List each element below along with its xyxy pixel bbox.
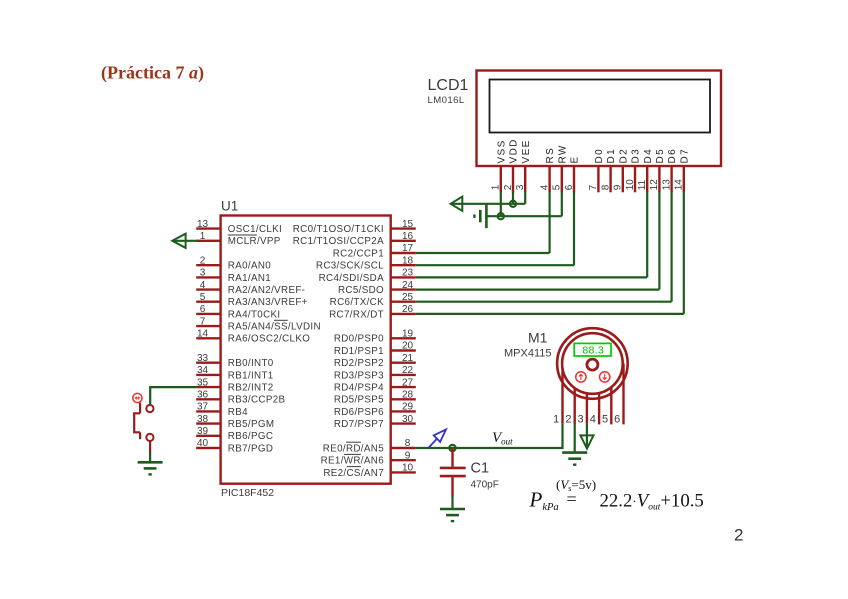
wire RC4 to LCD D4 — [416, 276, 647, 278]
U1 pin 10 RE2/CS/AN7 — [323, 463, 415, 479]
svg-text:12: 12 — [649, 179, 660, 191]
svg-text:5: 5 — [200, 292, 206, 303]
U1 pin 7 RA5/AN4/SS/LVDIN — [196, 316, 321, 332]
power terminal arrow down (M1 pin 3, Vs) — [580, 424, 593, 449]
svg-text:RD2/PSP2: RD2/PSP2 — [334, 358, 384, 369]
U1 pin 14 RA6/OSC2/CLKO — [196, 329, 310, 345]
U1 pin 40 RB7/PGD — [196, 438, 273, 454]
wire from LCD pin 4 (RS) down — [548, 191, 550, 253]
svg-text:RD3/PSP3: RD3/PSP3 — [334, 370, 384, 381]
U1 pin 8 RE0/RD/AN5 — [323, 438, 416, 454]
U1 pin 24 RC5/SDO — [338, 280, 416, 296]
wire RC3 to LCD E — [416, 264, 574, 266]
svg-text:6: 6 — [200, 304, 206, 315]
svg-text:34: 34 — [197, 365, 209, 376]
svg-text:23: 23 — [402, 268, 414, 279]
svg-text:RD7/PSP7: RD7/PSP7 — [334, 419, 384, 430]
ground symbol (LCD, rotated left) — [474, 204, 486, 228]
svg-text:D3: D3 — [631, 148, 642, 164]
svg-text:11: 11 — [637, 179, 648, 190]
U1 pin 38 RB5/PGM — [196, 414, 274, 430]
svg-text:9: 9 — [405, 450, 411, 461]
junction dot at C1 / Vout — [449, 445, 455, 451]
svg-text:RB7/PGD: RB7/PGD — [228, 443, 273, 454]
svg-text:RC2/CCP1: RC2/CCP1 — [333, 248, 384, 259]
svg-text:D1: D1 — [606, 148, 617, 164]
U1 pin 21 RD2/PSP2 — [334, 353, 416, 369]
U1 pin 6 RA4/T0CKI — [196, 304, 280, 320]
svg-text:18: 18 — [402, 255, 414, 266]
svg-text:2: 2 — [565, 413, 571, 425]
svg-text:8: 8 — [405, 438, 411, 449]
LCD display LCD1 body — [477, 71, 722, 167]
svg-text:13: 13 — [661, 179, 672, 191]
sensor decrement actuator (down arrow) — [600, 372, 610, 382]
svg-text:E: E — [570, 155, 581, 163]
U1 pin 20 RD1/PSP1 — [334, 341, 416, 357]
svg-text:24: 24 — [402, 280, 414, 291]
svg-text:VDD: VDD — [509, 138, 520, 163]
svg-text:15: 15 — [402, 219, 414, 230]
svg-text:RD4/PSP4: RD4/PSP4 — [334, 383, 384, 394]
svg-text:4: 4 — [539, 184, 550, 190]
U1 pin 19 RD0/PSP0 — [334, 329, 416, 345]
svg-text:RS: RS — [545, 147, 556, 164]
svg-text:RB4: RB4 — [228, 407, 248, 418]
svg-text:RB3/CCP2B: RB3/CCP2B — [228, 395, 286, 406]
U1 pin 26 RC7/RX/DT — [329, 304, 416, 320]
wire from LCD pin 5 (RW) down — [561, 191, 563, 216]
sensor M1 MPX4115 outer ring — [557, 328, 628, 399]
junction dot at LCD pin 2 / supply rail — [510, 201, 516, 207]
svg-text:27: 27 — [402, 377, 414, 388]
svg-text:2: 2 — [503, 184, 514, 190]
svg-text:D6: D6 — [667, 148, 678, 164]
svg-text:30: 30 — [402, 414, 414, 425]
svg-text:39: 39 — [197, 426, 209, 437]
push button switch (to RB2/INT2) — [133, 393, 154, 452]
LCD1 pin 2 (VDD) stub and pin number — [503, 138, 520, 192]
U1 pin 1 MCLR/VPP — [196, 231, 281, 247]
U1 pin 36 RB3/CCP2B — [196, 390, 285, 406]
wire from LCD pin 11 (D4) down — [646, 191, 648, 277]
svg-text:RC6/TX/CK: RC6/TX/CK — [330, 297, 384, 308]
svg-text:RC4/SDI/SDA: RC4/SDI/SDA — [319, 273, 384, 284]
U1 pin 35 RB2/INT2 — [196, 377, 273, 393]
U1 pin 39 RB6/PGC — [196, 426, 273, 442]
svg-text:OSC1/CLKI: OSC1/CLKI — [228, 224, 282, 235]
svg-text:29: 29 — [402, 402, 414, 413]
svg-text:PIC18F452: PIC18F452 — [221, 487, 274, 499]
svg-text:28: 28 — [402, 390, 414, 401]
wire from LCD pin 1 (VSS) down — [500, 191, 502, 216]
svg-text:(Práctica 7 a): (Práctica 7 a) — [101, 63, 204, 84]
LCD1 pin 3 (VEE) stub and pin number — [515, 139, 532, 192]
wire C1 to ground — [451, 496, 453, 509]
svg-text:RC3/SCK/SCL: RC3/SCK/SCL — [316, 261, 384, 272]
wire M1 pin 2 to ground — [574, 423, 576, 453]
wire from LCD pin 3 (VEE) down — [524, 191, 526, 204]
svg-text:4: 4 — [200, 280, 206, 291]
svg-text:=: = — [567, 489, 577, 509]
LCD inner screen area — [490, 80, 711, 133]
formula P_kPa = 22.2 V_out + 10.5 — [529, 488, 704, 514]
svg-text:20: 20 — [402, 341, 414, 352]
U1 pin 13 OSC1/CLKI — [196, 219, 282, 235]
svg-text:38: 38 — [197, 414, 209, 425]
wire ground rail (VSS, RW) — [487, 215, 562, 217]
svg-text:RB2/INT2: RB2/INT2 — [228, 383, 274, 394]
svg-text:1: 1 — [491, 184, 502, 190]
sensor center port circle — [587, 359, 598, 370]
M1 sensor pins 1-6 — [563, 364, 624, 425]
wire Vout (RE0/AN5 to MPX4115 pin 1) — [416, 424, 563, 448]
svg-text:RC0/T1OSO/T1CKI: RC0/T1OSO/T1CKI — [293, 224, 384, 235]
ground symbol (C1) — [440, 509, 465, 521]
U1 pin 17 RC2/CCP1 — [333, 243, 416, 259]
ground symbol (push button) — [138, 462, 163, 474]
svg-text:RD5/PSP5: RD5/PSP5 — [334, 395, 384, 406]
U1 pin 22 RD3/PSP3 — [334, 365, 416, 381]
svg-text:10: 10 — [625, 179, 636, 191]
svg-text:RC1/T1OSI/CCP2A: RC1/T1OSI/CCP2A — [293, 236, 384, 247]
U1 pin 28 RD5/PSP5 — [334, 390, 416, 406]
wire RC2/CCP1 to LCD RS — [416, 252, 550, 254]
LCD1 pin 11 (D4) stub and pin number — [637, 148, 654, 192]
wire RC7 to LCD D7 — [416, 313, 684, 315]
LCD1 pin 5 (RW) stub and pin number — [552, 144, 569, 192]
LCD1 pin 6 (E) stub and pin number — [564, 155, 581, 192]
svg-text:RB5/PGM: RB5/PGM — [228, 419, 275, 430]
svg-text:RA0/AN0: RA0/AN0 — [228, 261, 271, 272]
ground symbol (M1 pin 2) — [562, 453, 587, 465]
LCD1 pin 7 (D0) stub and pin number — [588, 148, 605, 192]
U1 pin 9 RE1/WR/AN6 — [321, 450, 416, 466]
svg-text:D4: D4 — [643, 148, 654, 164]
svg-text:RD0/PSP0: RD0/PSP0 — [334, 334, 384, 345]
U1 pin 33 RB0/INT0 — [196, 353, 274, 369]
wire RC5 to LCD D5 — [416, 289, 660, 291]
wire from LCD pin 14 (D7) down — [683, 191, 685, 314]
svg-text:RA1/AN1: RA1/AN1 — [228, 273, 271, 284]
svg-text:3: 3 — [515, 184, 526, 190]
U1 pin 3 RA1/AN1 — [196, 268, 271, 284]
svg-text:MCLR/VPP: MCLR/VPP — [228, 236, 281, 247]
U1 pin 15 RC0/T1OSO/T1CKI — [293, 219, 416, 235]
svg-text:D5: D5 — [655, 148, 666, 164]
svg-text:13: 13 — [197, 219, 209, 230]
svg-text:7: 7 — [200, 316, 206, 327]
svg-text:14: 14 — [674, 179, 685, 191]
U1 pin 5 RA3/AN3/VREF+ — [196, 292, 308, 308]
svg-text:RA4/T0CKI: RA4/T0CKI — [228, 309, 281, 320]
wire from LCD pin 2 (VDD) down — [512, 191, 514, 204]
svg-text:14: 14 — [197, 329, 209, 340]
LCD1 pin 9 (D2) stub and pin number — [613, 148, 630, 192]
U1 pin 37 RB4 — [196, 402, 248, 418]
sensor display window 88.3 — [574, 343, 611, 356]
svg-text:33: 33 — [197, 353, 209, 364]
svg-text:6: 6 — [564, 184, 575, 190]
LCD1 pin 13 (D6) stub and pin number — [661, 148, 678, 192]
svg-text:RB6/PGC: RB6/PGC — [228, 431, 273, 442]
svg-text:1: 1 — [200, 231, 206, 242]
svg-text:RB1/INT1: RB1/INT1 — [228, 370, 274, 381]
svg-text:D2: D2 — [618, 148, 629, 164]
svg-text:RA2/AN2/VREF-: RA2/AN2/VREF- — [228, 285, 306, 296]
svg-text:7: 7 — [588, 184, 599, 190]
input terminal arrow at MCLR (pin 1) — [172, 234, 197, 248]
svg-text:1: 1 — [553, 413, 559, 425]
svg-text:RA3/AN3/VREF+: RA3/AN3/VREF+ — [228, 297, 308, 308]
svg-text:RE1/WR/AN6: RE1/WR/AN6 — [321, 456, 385, 467]
U1 pin 34 RB1/INT1 — [196, 365, 273, 381]
svg-text:10: 10 — [402, 463, 414, 474]
svg-text:LCD1: LCD1 — [428, 77, 469, 94]
LCD1 pin 12 (D5) stub and pin number — [649, 148, 666, 192]
svg-text:VEE: VEE — [521, 139, 532, 163]
svg-text:35: 35 — [197, 377, 209, 388]
wire from LCD pin 13 (D6) down — [670, 191, 672, 302]
U1 pin 25 RC6/TX/CK — [330, 292, 416, 308]
svg-text:88.3: 88.3 — [582, 345, 604, 357]
U1 pin 2 RA0/AN0 — [196, 255, 271, 271]
LCD1 pin 4 (RS) stub and pin number — [539, 147, 556, 193]
svg-text:RD1/PSP1: RD1/PSP1 — [334, 346, 384, 357]
svg-text:RB0/INT0: RB0/INT0 — [228, 358, 274, 369]
junction dot at LCD pin 1 / ground rail — [498, 213, 504, 219]
U1 pin 29 RD6/PSP6 — [334, 402, 416, 418]
svg-text:2: 2 — [200, 255, 206, 266]
svg-text:RC7/RX/DT: RC7/RX/DT — [329, 309, 384, 320]
svg-text:RC5/SDO: RC5/SDO — [338, 285, 384, 296]
svg-text:RA5/AN4/SS/LVDIN: RA5/AN4/SS/LVDIN — [228, 322, 321, 333]
U1 pin 4 RA2/AN2/VREF- — [196, 280, 305, 296]
svg-text:RD6/PSP6: RD6/PSP6 — [334, 407, 384, 418]
svg-text:4: 4 — [590, 413, 596, 425]
U1 pin 16 RC1/T1OSI/CCP2A — [293, 231, 416, 247]
sensor M1 inner circle — [562, 333, 623, 394]
svg-text:37: 37 — [197, 402, 209, 413]
capacitor C1 — [440, 448, 466, 496]
LCD1 pin 14 (D7) stub and pin number — [674, 148, 691, 192]
wire from LCD pin 6 (E) down — [573, 191, 575, 265]
power terminal arrow (LCD VDD/VEE net) — [451, 197, 526, 211]
svg-text:3: 3 — [200, 268, 206, 279]
svg-text:U1: U1 — [221, 199, 238, 214]
svg-text:5: 5 — [602, 413, 608, 425]
microcontroller U1 PIC18F452 body — [221, 216, 391, 484]
U1 pin 18 RC3/SCK/SCL — [316, 255, 416, 271]
svg-text:22: 22 — [402, 365, 414, 376]
svg-text:25: 25 — [402, 292, 414, 303]
svg-text:9: 9 — [613, 184, 624, 190]
svg-text:D0: D0 — [594, 148, 605, 164]
wire RC6 to LCD D6 — [416, 301, 672, 303]
svg-text:21: 21 — [402, 353, 414, 364]
svg-text:LM016L: LM016L — [428, 95, 465, 106]
svg-text:RE0/RD/AN5: RE0/RD/AN5 — [323, 443, 384, 454]
svg-text:17: 17 — [402, 243, 414, 254]
M1 pin numbers 1-6 — [553, 413, 620, 425]
svg-text:3: 3 — [578, 413, 584, 425]
U1 pin 27 RD4/PSP4 — [334, 377, 416, 393]
svg-text:M1: M1 — [528, 330, 548, 346]
svg-text:36: 36 — [197, 390, 209, 401]
svg-text:26: 26 — [402, 304, 414, 315]
LCD1 pin 1 (VSS) stub and pin number — [491, 139, 508, 192]
wire from LCD pin 12 (D5) down — [658, 191, 660, 289]
LCD1 pin 10 (D3) stub and pin number — [625, 148, 642, 192]
svg-text:VSS: VSS — [496, 139, 507, 163]
svg-text:D7: D7 — [679, 148, 690, 164]
svg-text:2: 2 — [734, 526, 743, 545]
voltage probe (blue arrow) on Vout — [429, 429, 446, 447]
svg-text:5: 5 — [552, 184, 563, 190]
U1 pin 30 RD7/PSP7 — [334, 414, 416, 430]
svg-text:40: 40 — [197, 438, 209, 449]
U1 pin 23 RC4/SDI/SDA — [319, 268, 416, 284]
svg-text:RA6/OSC2/CLKO: RA6/OSC2/CLKO — [228, 334, 310, 345]
svg-text:MPX4115: MPX4115 — [504, 347, 552, 359]
svg-text:19: 19 — [402, 329, 414, 340]
svg-text:6: 6 — [614, 413, 620, 425]
wire push button to ground — [149, 452, 151, 463]
svg-text:RW: RW — [557, 144, 568, 163]
wire push button to RB2 (pin 35) — [150, 387, 196, 405]
svg-text:470pF: 470pF — [471, 480, 499, 491]
svg-text:RE2/CS/AN7: RE2/CS/AN7 — [323, 468, 384, 479]
svg-text:C1: C1 — [471, 460, 490, 476]
sensor increment actuator (up arrow) — [576, 372, 586, 382]
svg-text:16: 16 — [402, 231, 414, 242]
LCD1 pin 8 (D1) stub and pin number — [600, 148, 617, 192]
svg-text:8: 8 — [600, 184, 611, 190]
